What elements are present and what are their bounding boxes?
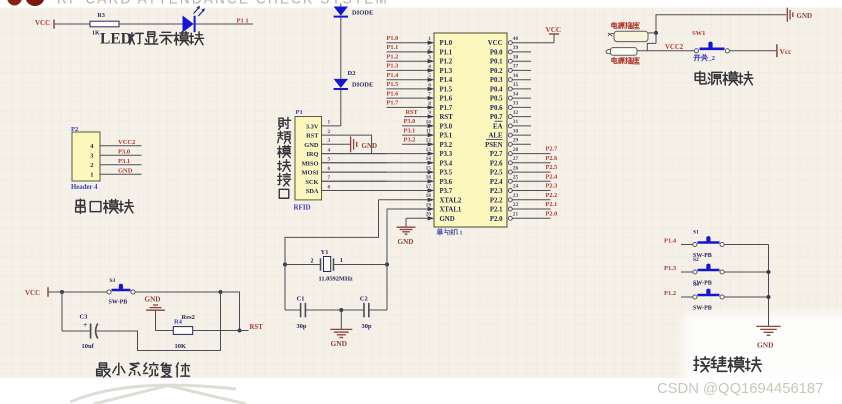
svg-text:18: 18 (426, 193, 432, 199)
svg-text:VCC: VCC (35, 19, 50, 27)
MCU right pin stubs with numbers (508, 36, 554, 220)
ground GND (power) (787, 8, 812, 22)
svg-text:1K: 1K (92, 30, 100, 36)
svg-text:P1.1: P1.1 (440, 49, 453, 56)
svg-text:S2: S2 (693, 257, 699, 263)
wire XTAL2 to crystal (285, 200, 379, 265)
svg-text:P1.7: P1.7 (440, 105, 453, 112)
node RST junction (238, 329, 242, 333)
svg-text:ALE: ALE (489, 133, 503, 140)
svg-text:RST: RST (406, 109, 419, 116)
wire VCC to node (48, 291, 62, 293)
wire XTAL1 to crystal (386, 209, 388, 265)
svg-text:DIODE: DIODE (352, 82, 373, 89)
switch S3 SW-PB (107, 278, 135, 305)
svg-text:S1: S1 (693, 230, 699, 236)
net labels RST P3.0 P3.1 P3.2 (404, 109, 419, 144)
node crystal right (385, 263, 389, 267)
wire socket to rail (647, 43, 656, 50)
wires P2 pins (100, 146, 142, 175)
svg-text:IRQ: IRQ (306, 151, 318, 158)
vertical module title: RF module interface (278, 117, 291, 198)
MCU left pin stubs with numbers (322, 36, 435, 220)
svg-text:P3.0: P3.0 (440, 123, 453, 130)
svg-text:XTAL2: XTAL2 (440, 197, 462, 204)
svg-text:1: 1 (328, 120, 331, 126)
wire D2 to RFID pin1 (340, 90, 342, 126)
capacitor C3 10uf (80, 314, 98, 350)
node reset A (60, 290, 64, 294)
svg-text:29: 29 (513, 138, 519, 144)
diode D2 DIODE (334, 70, 374, 89)
svg-text:P2.5: P2.5 (546, 164, 558, 171)
white page strip bottom (0, 378, 842, 404)
svg-text:GND: GND (757, 341, 773, 350)
svg-text:P1.6: P1.6 (440, 96, 453, 103)
svg-text:SCK: SCK (305, 179, 318, 186)
svg-text:_2: _2 (708, 55, 716, 62)
svg-text:SW-PB: SW-PB (109, 300, 128, 306)
svg-text:20: 20 (426, 212, 432, 218)
wire right vertical to caps (386, 265, 388, 311)
svg-text:P1.4: P1.4 (664, 238, 677, 245)
node crystal left (283, 263, 287, 267)
svg-text:SDA: SDA (306, 188, 319, 195)
svg-text:1: 1 (90, 172, 93, 179)
svg-text:VCC: VCC (488, 40, 503, 47)
wire to switch S1 (681, 244, 693, 246)
svg-text:P0.6: P0.6 (490, 105, 503, 112)
svg-text:P0.2: P0.2 (490, 68, 503, 75)
ground (RFID) (351, 137, 377, 153)
svg-text:3: 3 (428, 55, 431, 61)
svg-text:Res2: Res2 (182, 314, 195, 321)
svg-text:40: 40 (513, 36, 519, 42)
wire R3 to LED (119, 23, 183, 25)
svg-text:1: 1 (340, 257, 343, 264)
title: button module (694, 356, 761, 372)
svg-text:23: 23 (513, 193, 519, 199)
svg-text:SW1: SW1 (692, 30, 705, 37)
svg-text:P2.6: P2.6 (546, 155, 558, 162)
svg-text:30p: 30p (362, 323, 372, 330)
svg-text:P3.2: P3.2 (440, 142, 453, 149)
svg-text:P1.3: P1.3 (440, 68, 453, 75)
svg-text:P2.5: P2.5 (490, 170, 503, 177)
svg-text:10uf: 10uf (82, 343, 95, 350)
svg-text:27: 27 (513, 156, 519, 162)
svg-text:2: 2 (428, 45, 431, 51)
wire to RST label (240, 330, 249, 332)
svg-text:PSEN: PSEN (485, 142, 502, 149)
svg-text:P3.0: P3.0 (118, 149, 130, 156)
svg-text:P0.5: P0.5 (490, 96, 503, 103)
svg-text:VCC: VCC (25, 289, 40, 297)
svg-text:1: 1 (460, 230, 463, 237)
svg-text:RST: RST (440, 114, 454, 121)
net labels VCC2 P3.0 P3.1 GND (118, 139, 135, 175)
wire to switch S2 (681, 271, 693, 273)
node cap gnd (339, 308, 343, 312)
svg-text:MISO: MISO (301, 160, 318, 167)
svg-text:3.3V: 3.3V (306, 123, 319, 130)
wire LED to P1.1 (196, 23, 253, 25)
svg-text:17: 17 (426, 184, 432, 190)
switch S2 SW-PB (693, 257, 724, 286)
svg-text:XTAL1: XTAL1 (440, 207, 462, 214)
ground (buttons) (756, 326, 780, 349)
switch SW1 (692, 30, 729, 62)
svg-text:VCC2: VCC2 (118, 139, 135, 146)
svg-text:6: 6 (328, 166, 331, 172)
svg-text:12: 12 (426, 138, 432, 144)
svg-text:P3.5: P3.5 (440, 170, 453, 177)
svg-text:P2.2: P2.2 (490, 197, 503, 204)
svg-text:C2: C2 (360, 295, 368, 302)
svg-text:21: 21 (513, 212, 519, 218)
svg-text:3: 3 (328, 138, 331, 144)
svg-text:+: + (83, 320, 87, 329)
wire R4 to RST junction (193, 330, 240, 332)
wire RFID GND (322, 143, 351, 145)
net labels P2.7-P2.0 (546, 146, 559, 218)
wire node B to RST corner (221, 292, 240, 331)
wire power top to GND (656, 15, 786, 44)
svg-text:GND: GND (362, 142, 378, 150)
svg-text:P2.1: P2.1 (546, 201, 558, 208)
svg-text:19: 19 (426, 202, 432, 208)
switch S1 SW-PB (693, 230, 724, 259)
svg-text:P1.6: P1.6 (387, 90, 399, 97)
svg-text:P2.1: P2.1 (490, 207, 503, 214)
svg-text:P1 1: P1 1 (237, 18, 249, 25)
connector P2 Header 4 (71, 126, 100, 191)
svg-text:Header 4: Header 4 (71, 184, 98, 191)
svg-text:32: 32 (513, 110, 519, 116)
title: minimal system reset (97, 363, 190, 377)
power port VCC (reset) (25, 287, 48, 297)
svg-text:39: 39 (513, 45, 519, 51)
svg-text:P1.0: P1.0 (387, 35, 399, 42)
wire S3 to node B (135, 291, 220, 293)
wire RFID RST (322, 135, 372, 154)
LED D1 (183, 6, 205, 33)
svg-text:5: 5 (328, 157, 331, 163)
svg-text:P2.7: P2.7 (490, 151, 503, 158)
svg-text:GND: GND (331, 339, 347, 348)
svg-text:LED: LED (100, 31, 132, 48)
svg-text:P1.2: P1.2 (387, 53, 399, 60)
svg-text:S4: S4 (693, 282, 699, 288)
svg-text:38: 38 (513, 54, 519, 60)
svg-text:P3.3: P3.3 (440, 151, 453, 158)
switch S4 SW-PB (693, 282, 724, 311)
svg-text:D2: D2 (348, 70, 356, 77)
svg-text:10K: 10K (175, 343, 187, 350)
svg-text:P1.5: P1.5 (387, 81, 399, 88)
wire to C3 (62, 330, 90, 332)
ground (crystal) (330, 310, 352, 348)
cropped gray header text (57, 0, 389, 6)
svg-text:35: 35 (513, 82, 519, 88)
svg-text:33: 33 (513, 101, 519, 107)
svg-text:S3: S3 (110, 278, 116, 284)
svg-text:P2.0: P2.0 (546, 210, 558, 217)
title: LED display module (100, 31, 204, 48)
svg-text:2: 2 (310, 257, 313, 264)
svg-text:DIODE: DIODE (352, 9, 373, 16)
net labels P1.0-P1.7 (387, 35, 400, 107)
svg-text:P1.7: P1.7 (387, 100, 399, 107)
svg-text:1: 1 (428, 36, 431, 42)
svg-text:P0.3: P0.3 (490, 77, 503, 84)
wire switch S4 to bus (724, 296, 768, 298)
capacitor C2 30p (360, 295, 387, 330)
wire C3 to corner (97, 292, 221, 351)
wire RFID IRQ..SDA to MCU (322, 154, 388, 191)
svg-text:2: 2 (90, 162, 93, 169)
svg-text:P2.3: P2.3 (546, 183, 558, 190)
resistor R4 Res2 10K (173, 314, 195, 350)
wire crystal row (285, 264, 321, 266)
svg-text:P1.5: P1.5 (440, 86, 453, 93)
svg-text:11: 11 (426, 129, 431, 135)
svg-text:R3: R3 (98, 13, 105, 19)
svg-text:GND: GND (797, 12, 813, 20)
svg-text:34: 34 (513, 91, 519, 97)
svg-text:CSDN @QQ1694456187: CSDN @QQ1694456187 (657, 381, 823, 397)
svg-text:EA: EA (493, 123, 503, 130)
svg-text:GND: GND (440, 216, 455, 223)
wire button bus (768, 245, 770, 326)
svg-text:P0.7: P0.7 (490, 114, 503, 121)
svg-text:6: 6 (428, 82, 431, 88)
wire top stub (340, 4, 342, 7)
svg-text:2: 2 (328, 129, 331, 135)
svg-text:25: 25 (513, 175, 519, 181)
svg-text:24: 24 (513, 184, 519, 190)
svg-text:30: 30 (513, 128, 519, 134)
svg-text:GND: GND (304, 142, 319, 149)
svg-text:P3.7: P3.7 (440, 188, 453, 195)
power port VCC (LED module) (35, 19, 54, 29)
svg-text:4: 4 (428, 64, 431, 70)
svg-text:P3.1: P3.1 (118, 158, 130, 165)
wire switch to Vcc (729, 50, 776, 52)
svg-text:P1.4: P1.4 (387, 72, 400, 79)
wire node to S3 (62, 291, 107, 293)
svg-text:RST: RST (306, 133, 319, 140)
wire D1 to D2 (340, 18, 342, 79)
diode D1 DIODE (334, 7, 374, 17)
power port Vcc (777, 44, 792, 57)
svg-text:26: 26 (513, 165, 519, 171)
wire left vertical to caps (284, 265, 286, 311)
svg-text:GND: GND (398, 238, 414, 246)
svg-text:30p: 30p (297, 323, 307, 330)
svg-text:P0.1: P0.1 (490, 59, 503, 66)
connector P1 RFID (294, 109, 331, 211)
watermark swoosh (70, 385, 236, 402)
svg-text:P3.1: P3.1 (440, 133, 453, 140)
svg-text:14: 14 (426, 156, 432, 162)
capacitor C1 30p (285, 295, 307, 330)
svg-text:P1.4: P1.4 (440, 77, 453, 84)
svg-text:36: 36 (513, 73, 519, 79)
wire RFID 3.3V to diode chain (322, 125, 341, 127)
svg-text:VCC: VCC (546, 26, 562, 34)
wire gnd to R4 (156, 330, 174, 332)
power socket J2 (606, 48, 640, 64)
crystal Y1 11.0592MHz (310, 249, 353, 283)
svg-text:P3.1: P3.1 (404, 127, 416, 134)
svg-text:P1.2: P1.2 (664, 290, 676, 297)
title: serial port module (76, 199, 134, 213)
wire switch S1 to bus (724, 244, 768, 246)
svg-text:GND: GND (118, 168, 133, 175)
svg-text:Y1: Y1 (321, 249, 329, 256)
svg-text:P3.0: P3.0 (404, 118, 416, 125)
svg-text:7: 7 (328, 175, 331, 181)
svg-text:P2.3: P2.3 (490, 188, 503, 195)
svg-text:4: 4 (328, 147, 331, 153)
ground (reset) (145, 295, 166, 330)
svg-text:P1.3: P1.3 (664, 265, 677, 272)
node reset B (219, 290, 223, 294)
title: power module (695, 71, 753, 85)
svg-text:P0.4: P0.4 (490, 86, 503, 93)
wire socket to switch (637, 50, 694, 52)
svg-text:10: 10 (426, 119, 432, 125)
svg-text:9: 9 (428, 110, 431, 116)
svg-text:P1.0: P1.0 (440, 40, 453, 47)
svg-text:P0.0: P0.0 (490, 49, 503, 56)
node power socket (654, 31, 658, 35)
svg-text:C1: C1 (297, 295, 305, 302)
wire node A down (61, 292, 63, 331)
wire to switch S4 (681, 296, 693, 298)
node bus S2 (767, 270, 771, 274)
cropped red logo dots top-left (7, 0, 22, 6)
svg-text:31: 31 (513, 119, 519, 125)
node bus S4 (767, 295, 771, 299)
resistor R3 1K (90, 13, 119, 37)
svg-text:GND: GND (145, 295, 161, 303)
svg-text:15: 15 (426, 166, 432, 172)
svg-text:11.0592MHz: 11.0592MHz (319, 276, 353, 283)
svg-text:RF CARD ATTENDANCE CHECK SYSTE: RF CARD ATTENDANCE CHECK SYSTEM (57, 0, 389, 6)
svg-text:P2.6: P2.6 (490, 160, 503, 167)
svg-text:RST: RST (250, 324, 264, 331)
svg-text:SW-PB: SW-PB (693, 305, 712, 311)
wire VCC to R3 (54, 23, 90, 25)
svg-text:5: 5 (428, 73, 431, 79)
svg-text:13: 13 (426, 147, 432, 153)
svg-text:P1: P1 (296, 109, 303, 116)
svg-text:28: 28 (513, 147, 519, 153)
svg-text:16: 16 (426, 175, 432, 181)
svg-text:P3.4: P3.4 (440, 160, 453, 167)
wire caps middle (305, 309, 364, 311)
power socket J1 (608, 22, 648, 41)
MCU U1 8051 body (434, 33, 507, 237)
svg-text:P2.0: P2.0 (490, 216, 503, 223)
svg-text:22: 22 (513, 202, 519, 208)
wire switch S2 to bus (724, 271, 768, 273)
svg-text:P2.4: P2.4 (490, 179, 503, 186)
svg-text:P3.6: P3.6 (440, 179, 453, 186)
svg-text:8: 8 (328, 184, 331, 190)
svg-text:8: 8 (428, 101, 431, 107)
svg-text:Vcc: Vcc (780, 47, 793, 56)
svg-text:P3.2: P3.2 (404, 137, 416, 144)
svg-text:P2.2: P2.2 (546, 192, 558, 199)
svg-text:VCC2: VCC2 (665, 44, 684, 51)
ground GND (pin20) (397, 218, 416, 246)
svg-text:37: 37 (513, 64, 519, 70)
svg-text:P2.4: P2.4 (546, 173, 559, 180)
svg-text:P1.3: P1.3 (387, 63, 399, 70)
svg-text:RFID: RFID (294, 204, 311, 212)
svg-text:7: 7 (428, 92, 431, 98)
power port VCC (pin40) (546, 26, 562, 43)
svg-text:P1.1: P1.1 (387, 44, 399, 51)
white page strip top (0, 0, 842, 8)
svg-text:P2.7: P2.7 (546, 146, 558, 153)
svg-text:MOSI: MOSI (301, 170, 319, 177)
svg-text:P1.2: P1.2 (440, 59, 453, 66)
wire socket pin stub (648, 32, 656, 34)
